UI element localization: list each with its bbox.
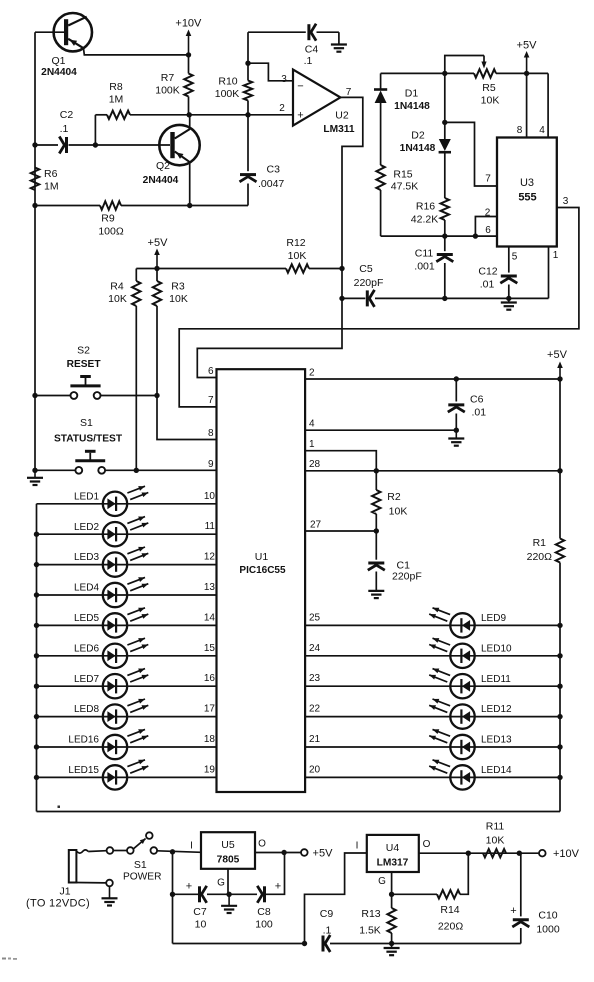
svg-text:4: 4 [309, 419, 315, 430]
svg-text:R3: R3 [171, 281, 185, 293]
LED LED6 [74, 638, 148, 668]
svg-text:S2: S2 [77, 345, 90, 357]
junction S1 R4 [134, 468, 139, 473]
wire C4 top line [248, 32, 339, 63]
svg-text:1.5K: 1.5K [359, 925, 381, 937]
capacitor C8 100 [229, 881, 281, 931]
svg-text:C5: C5 [359, 263, 373, 275]
resistor R8 1M [107, 81, 130, 119]
resistor R4 10K [108, 269, 140, 471]
power +5V 555 [517, 40, 538, 74]
svg-text:10: 10 [195, 919, 207, 931]
power +10V [175, 18, 202, 55]
wire row pin 24 [305, 655, 560, 657]
svg-text:10K: 10K [486, 835, 505, 847]
svg-text:(TO 12VDC): (TO 12VDC) [26, 898, 90, 910]
svg-text:8: 8 [517, 125, 523, 136]
svg-text:25: 25 [309, 612, 321, 623]
LED LED9 [429, 608, 506, 638]
svg-text:R8: R8 [109, 81, 123, 93]
junction C6 bottom [454, 428, 459, 433]
svg-text:R16: R16 [416, 201, 435, 213]
svg-text:C12: C12 [478, 266, 497, 278]
terminal J1 tip [107, 847, 114, 854]
wire pin1 jog [305, 451, 376, 471]
wire R9 line [35, 205, 248, 207]
svg-text:R15: R15 [393, 169, 412, 181]
svg-text:U3: U3 [520, 177, 534, 189]
svg-text:100: 100 [255, 919, 273, 931]
junction R13 rail [389, 941, 394, 946]
svg-text:LED8: LED8 [74, 704, 99, 715]
LED LED3 [74, 547, 148, 577]
junction +5V pin8 [524, 71, 529, 76]
junction LED bus [34, 592, 39, 597]
svg-text:R7: R7 [161, 72, 175, 84]
junction U5 input [170, 849, 175, 854]
svg-text:15: 15 [204, 643, 216, 654]
svg-text:10K: 10K [389, 506, 408, 518]
capacitor C4 .1 [304, 24, 319, 67]
wire row pin 17 [37, 716, 217, 718]
svg-text:7: 7 [485, 174, 491, 185]
junction S2 R3 [154, 393, 159, 398]
ground S1 bus [34, 470, 36, 478]
wire row pin 23 [305, 685, 560, 687]
svg-text:I: I [190, 841, 193, 852]
svg-text:LED15: LED15 [68, 765, 99, 776]
wire pin3 route to U1 pin7 [179, 208, 579, 407]
svg-text:7805: 7805 [217, 855, 240, 866]
svg-text:LED4: LED4 [74, 583, 99, 594]
svg-text:11: 11 [205, 521, 216, 532]
junction U4 adj [389, 892, 394, 897]
speck artifacts bottom left [2, 958, 17, 960]
junction R5 left / D2 top [442, 71, 447, 76]
wire row pin 10 [37, 503, 217, 505]
wire row pin 18 [37, 746, 217, 748]
svg-text:+: + [510, 905, 516, 917]
svg-text:1: 1 [553, 250, 559, 261]
svg-text:555: 555 [518, 192, 536, 204]
svg-text:10: 10 [204, 491, 216, 502]
svg-text:100Ω: 100Ω [98, 226, 124, 238]
terminal J1 sleeve [106, 880, 113, 887]
junction +10V node [186, 52, 191, 57]
resistor R2 10K [372, 471, 407, 531]
svg-text:+5V: +5V [148, 237, 169, 249]
LED LED4 [74, 577, 148, 607]
LED LED16 [68, 729, 148, 759]
svg-text:C8: C8 [257, 906, 271, 918]
wire row pin 11 [37, 533, 217, 535]
svg-text:+10V: +10V [175, 18, 202, 30]
svg-text:LED9: LED9 [481, 613, 506, 624]
resistor R12 10K [286, 237, 309, 273]
wire input drop [172, 852, 174, 944]
junction rail U4 branch [302, 941, 307, 946]
resistor R9 100ohm [98, 201, 124, 237]
junction +5V R3 top [154, 266, 159, 271]
capacitor C10 1000 [510, 853, 560, 943]
svg-text:LED1: LED1 [74, 491, 99, 502]
wire left LED bus [36, 504, 38, 812]
wire ground line C5 [342, 247, 549, 299]
svg-text:LED10: LED10 [481, 643, 512, 654]
switch S1 STATUS/TEST [35, 417, 217, 474]
capacitor C7 10 [173, 881, 207, 931]
svg-text:+: + [186, 881, 192, 893]
svg-text:100K: 100K [155, 85, 180, 97]
wire pin28 line [305, 470, 560, 472]
resistor R16 42.2K [411, 198, 449, 236]
wire row pin 20 [305, 776, 560, 778]
junction rail [557, 653, 562, 658]
wire pin4 riser [547, 73, 549, 137]
wire C7 to ground node [207, 893, 229, 895]
svg-text:220Ω: 220Ω [438, 921, 464, 933]
LED LED15 [68, 760, 148, 790]
svg-text:C6: C6 [470, 394, 484, 406]
connector J1 [26, 850, 106, 910]
resistor R13 1.5K [359, 894, 396, 943]
wire U2 output [197, 97, 362, 377]
wire pin3 jog to U2 [248, 63, 293, 81]
svg-text:24: 24 [309, 643, 321, 654]
junction C11 bottom [442, 296, 447, 301]
svg-text:.1: .1 [60, 123, 69, 135]
svg-text:3: 3 [281, 74, 287, 85]
junction R9 bus [32, 203, 37, 208]
svg-text:LED6: LED6 [74, 643, 99, 654]
capacitor C1 220pF [368, 531, 422, 591]
svg-text:C11: C11 [415, 248, 434, 260]
svg-text:O: O [423, 839, 431, 850]
junction C12 ground [506, 296, 511, 301]
svg-text:2: 2 [309, 368, 315, 379]
wire +5V top line 555 [381, 72, 548, 74]
svg-text:I: I [356, 841, 359, 852]
pin labels U1 left [204, 366, 216, 775]
svg-text:.01: .01 [480, 279, 495, 291]
svg-text:1: 1 [309, 439, 315, 450]
svg-text:.001: .001 [414, 261, 435, 273]
wire bottom rail right [392, 943, 521, 945]
junction pin2 tap [473, 233, 478, 238]
IC U3 555 [485, 125, 569, 263]
LED LED8 [74, 699, 148, 729]
junction U5 output [281, 850, 286, 855]
diode D1 1N4148 [374, 73, 430, 165]
LED LED7 [74, 669, 148, 699]
wire pin27 line [305, 530, 376, 532]
ground R13 [391, 944, 393, 949]
junction rail [557, 744, 562, 749]
svg-text:S1: S1 [134, 859, 147, 871]
svg-text:3: 3 [563, 196, 569, 207]
svg-text:LED13: LED13 [481, 735, 512, 746]
svg-text:Q1: Q1 [51, 55, 65, 67]
svg-text:10K: 10K [169, 293, 188, 305]
junction Q2 emitter R9 [187, 203, 192, 208]
junction R10 bottom [245, 112, 250, 117]
junction S1 bus [32, 468, 37, 473]
svg-text:LED3: LED3 [74, 552, 99, 563]
svg-text:220pF: 220pF [354, 277, 384, 289]
LED LED14 [429, 760, 512, 790]
svg-text:R12: R12 [286, 237, 305, 249]
svg-text:10K: 10K [288, 250, 307, 262]
svg-text:+5V: +5V [517, 40, 538, 52]
junction C2 left bus [32, 142, 37, 147]
svg-text:2N4404: 2N4404 [41, 67, 77, 78]
wire pin8 riser [526, 73, 528, 137]
svg-text:LED12: LED12 [481, 704, 512, 715]
wire R3 to U1 pin8 [157, 396, 217, 440]
svg-text:1000: 1000 [536, 924, 560, 936]
junction rail [557, 775, 562, 780]
junction LED bus [34, 744, 39, 749]
junction rail [557, 714, 562, 719]
svg-text:17: 17 [204, 704, 216, 715]
LED LED2 [74, 517, 148, 547]
junction rail [557, 623, 562, 628]
wire pin6 line [381, 235, 497, 237]
svg-text:100K: 100K [215, 88, 240, 100]
svg-text:5: 5 [512, 252, 518, 263]
svg-text:Q2: Q2 [156, 160, 170, 172]
svg-text:+10V: +10V [553, 848, 580, 860]
svg-text:C3: C3 [267, 164, 281, 176]
wire U5 ground [227, 869, 229, 895]
wire row pin 13 [37, 594, 217, 596]
capacitor C12 .01 [478, 266, 517, 299]
svg-text:LM311: LM311 [323, 124, 354, 135]
wire Q2 collector [189, 115, 191, 128]
svg-text:RESET: RESET [67, 359, 102, 370]
junction LED bus [34, 623, 39, 628]
svg-text:C7: C7 [193, 906, 207, 918]
svg-text:R9: R9 [101, 213, 115, 225]
ground C6 [455, 430, 457, 438]
svg-text:U4: U4 [386, 842, 400, 854]
svg-text:LED14: LED14 [481, 765, 512, 776]
svg-text:R10: R10 [218, 76, 237, 88]
svg-text:R4: R4 [110, 281, 124, 293]
power +5V left [148, 237, 169, 269]
capacitor C5 220pF [354, 263, 384, 307]
LED LED1 [74, 486, 148, 516]
svg-text:19: 19 [204, 764, 216, 775]
capacitor C3 .0047 [240, 115, 285, 206]
svg-text:.01: .01 [472, 407, 487, 419]
wire R12 line [136, 268, 342, 270]
junction rail [557, 684, 562, 689]
svg-text:+5V: +5V [547, 349, 568, 361]
LED LED13 [429, 729, 512, 759]
resistor R11 10K [483, 821, 506, 858]
svg-text:1M: 1M [44, 181, 59, 193]
switch S1 POWER [113, 832, 201, 882]
svg-text:4: 4 [539, 125, 545, 136]
wire Q1 base to left bus [35, 31, 65, 33]
junction LED bus [34, 532, 39, 537]
svg-text:14: 14 [204, 612, 216, 623]
LED LED10 [429, 638, 512, 668]
svg-text:12: 12 [204, 552, 216, 563]
svg-text:LED11: LED11 [481, 674, 511, 685]
power rail +5V vertical [559, 379, 561, 539]
svg-text:R6: R6 [44, 168, 58, 180]
wire row pin 22 [305, 716, 560, 718]
LED LED11 [429, 669, 511, 699]
junction C7 left [170, 892, 175, 897]
wire pin2 jog [475, 217, 497, 237]
junction R16 bottom [442, 233, 447, 238]
svg-text:.1: .1 [323, 925, 332, 937]
switch S2 RESET [35, 345, 157, 399]
resistor R15 47.5K [376, 165, 418, 236]
junction R14 output [466, 851, 471, 856]
svg-text:7: 7 [346, 87, 352, 98]
svg-text:23: 23 [309, 673, 321, 684]
ground C12 [508, 299, 510, 303]
svg-text:2N4404: 2N4404 [143, 175, 179, 186]
regulator U5 7805 [190, 832, 266, 888]
svg-text:R2: R2 [387, 491, 401, 503]
svg-text:.1: .1 [304, 55, 313, 67]
capacitor C11 .001 [414, 236, 453, 298]
svg-text:6: 6 [208, 366, 214, 377]
wire row pin 21 [305, 746, 560, 748]
junction LED bus [34, 775, 39, 780]
svg-text:O: O [258, 839, 266, 850]
junction R7/Q2 collector [187, 112, 192, 117]
svg-text:2: 2 [485, 208, 491, 219]
svg-text:8: 8 [208, 428, 214, 439]
svg-text:−: − [297, 81, 303, 93]
svg-text:.0047: .0047 [258, 178, 284, 190]
svg-text:R1: R1 [533, 537, 547, 549]
resistor R7 100K [155, 55, 192, 115]
junction pin27 C1 [374, 528, 379, 533]
junction LED bus [34, 714, 39, 719]
capacitor C9 .1 [320, 908, 392, 952]
junction C5 left [339, 296, 344, 301]
resistor R6 1M [31, 168, 59, 193]
wire bottom loop [37, 811, 561, 813]
svg-text:U2: U2 [335, 110, 349, 122]
svg-text:6: 6 [485, 225, 491, 236]
svg-text:PIC16C55: PIC16C55 [239, 565, 286, 576]
svg-text:U5: U5 [221, 839, 235, 851]
wire row pin 14 [37, 624, 217, 626]
resistor R10 100K [215, 63, 252, 115]
svg-text:LED7: LED7 [74, 674, 99, 685]
junction S2 bus [32, 393, 37, 398]
LED LED5 [74, 608, 148, 638]
junction pin2 rail [557, 376, 562, 381]
svg-text:G: G [217, 878, 225, 889]
wire row pin 12 [37, 564, 217, 566]
diode D2 1N4148 [400, 73, 451, 198]
svg-text:LED2: LED2 [74, 522, 99, 533]
pin labels U1 right [309, 368, 322, 776]
svg-text:7: 7 [208, 395, 214, 406]
svg-text:42.2K: 42.2K [411, 214, 438, 226]
svg-text:16: 16 [204, 673, 216, 684]
ground C1 [368, 590, 384, 592]
wire bottom rail left [173, 943, 305, 945]
ground C4 [331, 43, 347, 45]
capacitor C6 .01 [448, 379, 486, 430]
svg-text:28: 28 [309, 459, 321, 470]
svg-text:R13: R13 [361, 908, 380, 920]
wire C8 to output [265, 853, 285, 895]
ground J1 [109, 886, 111, 898]
resistor R1 220ohm [527, 537, 565, 812]
junction C6 top [454, 376, 459, 381]
junction pin7 tap [442, 120, 447, 125]
svg-text:C10: C10 [538, 910, 557, 922]
transistor Q1 2N4404 [41, 13, 92, 78]
junction LED bus [34, 653, 39, 658]
svg-text:R14: R14 [440, 904, 459, 916]
trimpot R5 10K [445, 56, 500, 107]
svg-text:J1: J1 [59, 886, 70, 898]
wire R8 / pin2 line [95, 114, 293, 116]
wire U5 output [255, 852, 301, 854]
wire Q2 emitter [189, 163, 191, 206]
svg-text:1N4148: 1N4148 [400, 143, 436, 154]
svg-text:C4: C4 [305, 44, 319, 56]
svg-text:9: 9 [208, 459, 214, 470]
svg-text:+: + [275, 881, 281, 893]
transistor Q2 2N4404 [143, 125, 200, 186]
wire pin4 line [305, 429, 456, 431]
wire Q1 emitter to +10V node [84, 48, 189, 55]
wire U4 adj [391, 872, 393, 894]
svg-text:G: G [378, 876, 386, 887]
svg-text:LM317: LM317 [377, 858, 409, 869]
wire left bus vertical [34, 32, 36, 470]
speck artifact [58, 806, 61, 809]
svg-text:47.5K: 47.5K [391, 181, 418, 193]
junction C10 top [517, 851, 522, 856]
junction U5 ground [226, 892, 231, 897]
junction pin28 R2 [374, 468, 379, 473]
svg-text:D1: D1 [405, 88, 419, 100]
wire row pin 25 [305, 624, 560, 626]
svg-text:R11: R11 [486, 821, 505, 833]
wire R8 left drop to C2 line [94, 115, 96, 145]
svg-text:LED16: LED16 [68, 735, 99, 746]
svg-text:18: 18 [204, 734, 216, 745]
capacitor C2 .1 [35, 109, 170, 154]
svg-text:D2: D2 [411, 130, 425, 142]
LED LED12 [429, 699, 512, 729]
svg-text:C9: C9 [320, 908, 334, 920]
junction Q2 base node [93, 142, 98, 147]
svg-text:1M: 1M [109, 94, 124, 106]
junction R10 top / pin3 tap [245, 61, 250, 66]
junction pin28 rail [557, 468, 562, 473]
svg-text:S1: S1 [80, 417, 93, 429]
IC U1 PIC16C55 [217, 369, 306, 792]
svg-text:10K: 10K [481, 95, 500, 107]
wire pin7 jog [445, 122, 497, 186]
wire pin2 +5V line [305, 378, 560, 380]
